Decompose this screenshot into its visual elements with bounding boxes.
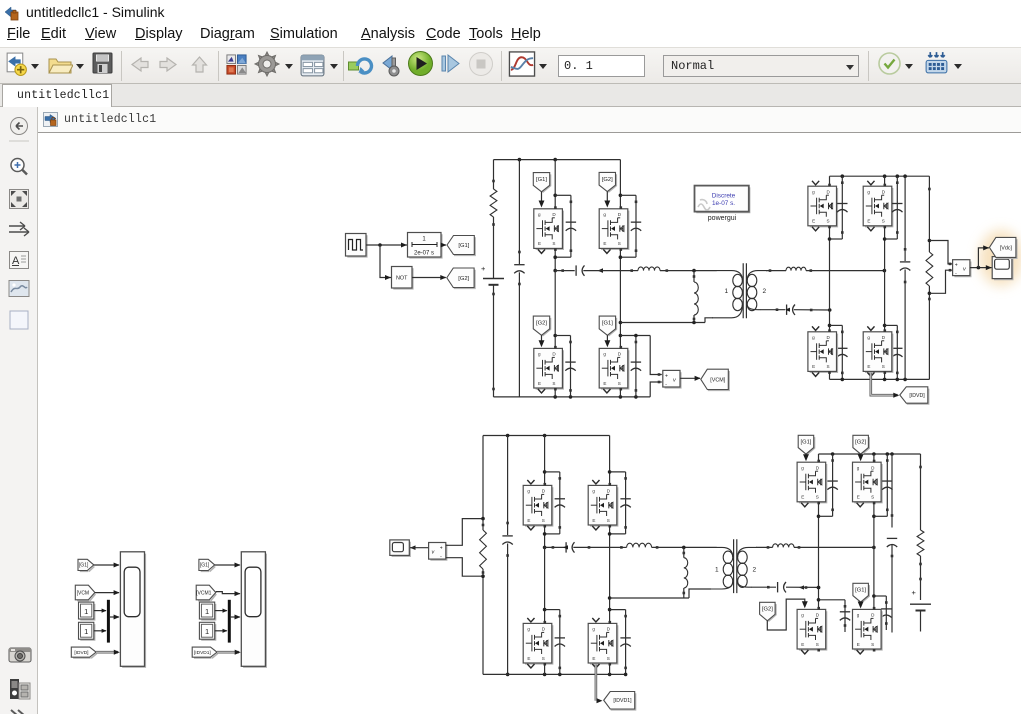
svg-text:E: E bbox=[592, 656, 595, 661]
svg-text:NOT: NOT bbox=[396, 276, 408, 282]
svg-text:g: g bbox=[857, 465, 860, 470]
svg-text:E: E bbox=[812, 219, 815, 224]
svg-text:1: 1 bbox=[715, 567, 719, 574]
svg-text:E: E bbox=[857, 495, 860, 500]
svg-text:g: g bbox=[867, 189, 870, 194]
svg-text:[VCM]: [VCM] bbox=[710, 377, 725, 383]
svg-text:+: + bbox=[665, 373, 668, 379]
svg-text:E: E bbox=[812, 364, 815, 369]
svg-text:[G2]: [G2] bbox=[855, 440, 866, 446]
svg-text:+: + bbox=[912, 588, 917, 597]
svg-text:[G1]: [G1] bbox=[855, 588, 866, 594]
svg-text:g: g bbox=[857, 613, 860, 618]
svg-text:g: g bbox=[538, 352, 541, 357]
svg-text:[G1]: [G1] bbox=[602, 321, 613, 327]
svg-text:+: + bbox=[440, 545, 443, 551]
svg-text:[G1]: [G1] bbox=[200, 563, 210, 569]
svg-text:E: E bbox=[538, 381, 541, 386]
svg-text:E: E bbox=[801, 495, 804, 500]
svg-text:S: S bbox=[827, 364, 830, 369]
svg-text:2: 2 bbox=[753, 567, 757, 574]
svg-text:S: S bbox=[871, 495, 874, 500]
svg-text:[Vdc]: [Vdc] bbox=[1000, 245, 1013, 251]
svg-text:[IDVD]: [IDVD] bbox=[74, 650, 88, 656]
svg-text:[G1]: [G1] bbox=[458, 243, 469, 249]
svg-text:g: g bbox=[527, 489, 530, 494]
svg-text:g: g bbox=[527, 627, 530, 632]
svg-text:S: S bbox=[552, 241, 555, 246]
svg-text:g: g bbox=[801, 465, 804, 470]
svg-text:1: 1 bbox=[84, 627, 88, 636]
svg-text:1: 1 bbox=[205, 627, 209, 636]
svg-text:S: S bbox=[542, 656, 545, 661]
svg-text:g: g bbox=[603, 212, 606, 217]
svg-text:Discrete: Discrete bbox=[712, 193, 736, 200]
svg-text:2: 2 bbox=[763, 288, 767, 295]
svg-text:E: E bbox=[801, 642, 804, 647]
svg-text:S: S bbox=[882, 364, 885, 369]
svg-text:S: S bbox=[882, 219, 885, 224]
svg-text:g: g bbox=[592, 489, 595, 494]
svg-text:g: g bbox=[812, 189, 815, 194]
svg-text:E: E bbox=[592, 518, 595, 523]
svg-text:g: g bbox=[801, 613, 804, 618]
svg-text:E: E bbox=[857, 642, 860, 647]
svg-text:+: + bbox=[481, 264, 486, 273]
svg-text:g: g bbox=[603, 352, 606, 357]
svg-text:E: E bbox=[538, 241, 541, 246]
svg-text:g: g bbox=[538, 212, 541, 217]
svg-text:S: S bbox=[618, 381, 621, 386]
svg-text:S: S bbox=[816, 642, 819, 647]
svg-text:[G2]: [G2] bbox=[458, 276, 469, 282]
svg-text:g: g bbox=[812, 335, 815, 340]
svg-text:E: E bbox=[867, 219, 870, 224]
svg-text:E: E bbox=[867, 364, 870, 369]
svg-text:E: E bbox=[603, 381, 606, 386]
svg-text:[VCM: [VCM bbox=[77, 590, 90, 596]
svg-text:[G2]: [G2] bbox=[602, 177, 613, 183]
svg-text:S: S bbox=[552, 381, 555, 386]
svg-text:E: E bbox=[527, 656, 530, 661]
svg-text:S: S bbox=[542, 518, 545, 523]
svg-text:1: 1 bbox=[725, 288, 729, 295]
svg-text:S: S bbox=[827, 219, 830, 224]
svg-text:g: g bbox=[867, 335, 870, 340]
svg-text:S: S bbox=[871, 642, 874, 647]
svg-text:[G2]: [G2] bbox=[536, 321, 547, 327]
svg-text:E: E bbox=[527, 518, 530, 523]
svg-text:[IDVD1]: [IDVD1] bbox=[194, 650, 211, 656]
svg-text:powergui: powergui bbox=[708, 215, 737, 222]
svg-text:+: + bbox=[955, 262, 958, 268]
svg-text:[IDVD1]: [IDVD1] bbox=[613, 698, 632, 704]
svg-text:1: 1 bbox=[84, 607, 88, 616]
svg-text:S: S bbox=[816, 495, 819, 500]
svg-text:1e-07 s.: 1e-07 s. bbox=[712, 200, 735, 207]
svg-text:[G1]: [G1] bbox=[800, 440, 811, 446]
svg-text:g: g bbox=[592, 627, 595, 632]
svg-text:[IDVD]: [IDVD] bbox=[909, 393, 925, 399]
svg-text:[VCM1: [VCM1 bbox=[196, 590, 212, 596]
svg-text:S: S bbox=[618, 241, 621, 246]
svg-text:2e-07 s: 2e-07 s bbox=[414, 251, 434, 257]
svg-text:1: 1 bbox=[205, 607, 209, 616]
svg-text:[G2]: [G2] bbox=[762, 606, 773, 612]
svg-text:E: E bbox=[603, 241, 606, 246]
svg-text:S: S bbox=[607, 518, 610, 523]
svg-text:S: S bbox=[607, 656, 610, 661]
svg-text:[G1]: [G1] bbox=[79, 563, 89, 569]
svg-text:[G1]: [G1] bbox=[536, 177, 547, 183]
